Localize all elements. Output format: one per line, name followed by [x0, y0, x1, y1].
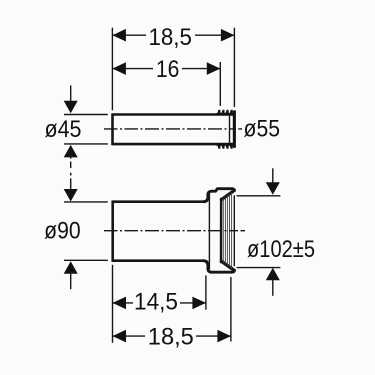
dimension o45: upper arrow stem [70, 85, 72, 103]
svg-text:ø90: ø90 [44, 217, 81, 244]
bell cone front edge [220, 199, 223, 262]
dimension 14,5: dimension line [113, 302, 206, 304]
dimension 18,5 top: right arrowhead [221, 29, 235, 42]
top tube body outline [111, 113, 234, 145]
dimension 16: dimension line [112, 68, 220, 70]
dimension 18,5 bottom: value label [148, 324, 194, 351]
top tube centerline [104, 128, 242, 130]
dimension o90: upper arrowhead pointing down [64, 189, 78, 202]
dimension o102: extension line top [237, 195, 281, 197]
dimension 18,5 bottom: dimension line [113, 335, 231, 337]
dimension 16: right arrowhead [207, 62, 221, 75]
svg-text:ø102±5: ø102±5 [247, 236, 315, 263]
svg-text:18,5: 18,5 [148, 324, 194, 351]
dimension 18,5 top: left arrowhead [112, 29, 126, 42]
bottom tube centerline [104, 230, 245, 232]
top tube serration teeth upper [217, 110, 233, 114]
dimension 18,5 bottom: extension line right [230, 277, 232, 342]
bell cone bottom chamfer wedge [221, 261, 233, 270]
dimension o102: lower arrowhead pointing up [266, 268, 280, 281]
dimension 18,5 top: value label [148, 24, 192, 51]
dimension o102: extension line bottom [237, 267, 281, 269]
dimension o45: upper arrowhead pointing down [64, 101, 78, 114]
shared stem with dash-dot between o45 and o90 arrows [70, 156, 72, 190]
dimension 16: value label [156, 56, 180, 83]
dimension 18,5 bottom: left arrowhead [113, 330, 127, 343]
dimension o45: extension line bottom [64, 143, 108, 145]
bell cone top chamfer wedge [221, 191, 233, 200]
label o55 [244, 116, 281, 143]
dimension 18,5 top: extension line right [233, 28, 235, 107]
dimension 18,5 top: dimension line [112, 34, 234, 36]
dimension o90: lower arrowhead pointing up [64, 261, 78, 274]
dimension 14,5: extension line right [205, 275, 207, 309]
dimension 14,5: value label [134, 289, 178, 316]
dimension 18,5 top: extension line left [111, 28, 113, 111]
bell cone hatch lines [223, 192, 231, 268]
dimension o45: value label [45, 116, 82, 143]
dimension o102: upper arrowhead pointing down [266, 182, 280, 195]
top tube inner end line [229, 116, 231, 143]
dimension o90: value label [44, 217, 81, 244]
dimension o90: extension line bottom [64, 259, 108, 261]
top tube serration collar base upper [216, 113, 233, 116]
dimension o102: value label [247, 236, 315, 263]
svg-text:ø45: ø45 [45, 116, 82, 143]
dimension 14,5: left arrowhead [113, 297, 127, 310]
dimension 14,5: extension line left (shared with 18,5) [112, 265, 114, 343]
dimension o102: upper arrow stem [272, 168, 274, 184]
dimension 16: left arrowhead [112, 62, 126, 75]
svg-text:ø55: ø55 [244, 116, 281, 143]
bell inner wall line [208, 193, 210, 270]
svg-text:18,5: 18,5 [148, 24, 192, 51]
dimension 16: extension line right [219, 62, 221, 106]
svg-text:14,5: 14,5 [134, 289, 178, 316]
bell right face line [233, 195, 235, 266]
dimension o90: extension line top [64, 201, 108, 203]
dimension 18,5 bottom: right arrowhead [217, 330, 231, 343]
dimension o102: lower arrow stem [272, 279, 274, 296]
svg-text:16: 16 [156, 56, 180, 83]
dimension o45: extension line top [64, 114, 108, 116]
top tube serrated collar end cap [233, 110, 236, 147]
bell outer profile upper [203, 189, 235, 202]
top tube serration teeth lower [217, 145, 233, 149]
dimension o45: lower arrowhead pointing up [64, 145, 78, 158]
dimension o90: lower arrow stem [70, 272, 72, 289]
bottom tube body outline [112, 201, 205, 262]
dimension 14,5: right arrowhead [192, 297, 206, 310]
bell outer profile lower [203, 261, 235, 273]
top tube serration collar base lower [216, 143, 233, 146]
